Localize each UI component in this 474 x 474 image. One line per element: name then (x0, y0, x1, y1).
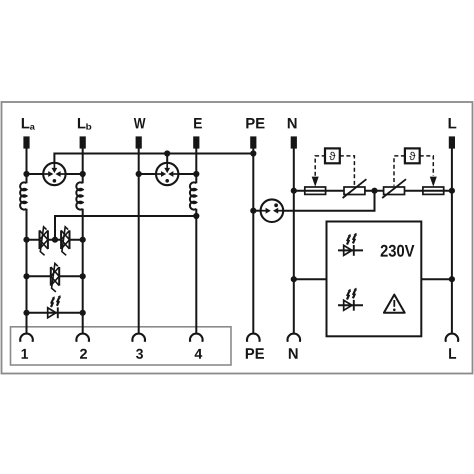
node Lb/F1 (80, 171, 86, 177)
terminal PE top (250, 136, 256, 148)
wire L vertical (451, 148, 453, 334)
thermal monitor B1 (theta box) (325, 148, 340, 163)
wire TVS V3 row (27, 275, 83, 277)
inductor L1 on La (20, 182, 26, 209)
label L top (449, 118, 457, 128)
wire rail B: TVS midpoint to E line (55, 216, 196, 240)
socket contact terminal PE bottom (247, 334, 260, 342)
terminal block X1 outline (terminals 1-4) (11, 327, 232, 365)
inductor L2 on Lb (76, 182, 82, 209)
pin label 2 (80, 349, 87, 359)
value label 230V (381, 245, 415, 257)
pin label 1 (22, 349, 28, 359)
node La/V3 (23, 273, 29, 279)
socket contact terminal 3 (132, 334, 145, 342)
node Lb/D1 (80, 310, 86, 316)
wire N-L protection row (294, 190, 452, 192)
node F2 stem/rail A (164, 150, 170, 156)
dashed linkage B2 to RV2 and F5 arrow (394, 156, 433, 186)
node L/U1 (449, 276, 455, 282)
terminal N top (291, 136, 297, 148)
node E/F2 (193, 171, 199, 177)
terminal Lb (80, 136, 86, 148)
pin label L bottom (449, 348, 456, 358)
gas discharge tube F3 (PE to varistor midpoint) (261, 199, 284, 222)
wire E vertical (195, 148, 197, 334)
node L/row (449, 188, 455, 194)
node V1-V2 midpoint (52, 237, 58, 243)
pin label PE bottom (246, 348, 264, 358)
wire F1 right lead (66, 173, 83, 175)
disconnect arrow F5 (430, 177, 437, 187)
label PE top (246, 118, 264, 128)
fuse F5 with thermal disconnect (L side) (423, 187, 444, 194)
inductor L3 on E (190, 182, 196, 209)
wire U1 left lead from N (294, 278, 327, 280)
socket contact terminal N bottom (287, 334, 300, 342)
terminal L top (449, 136, 455, 148)
socket contact terminal L bottom (446, 334, 459, 342)
gas discharge tube F1 (La-Lb) (43, 163, 65, 185)
dashed linkage B1 to F4 arrow and RV1 (315, 156, 354, 186)
node Lb/V3 (80, 273, 86, 279)
status module U1 (230V box) (327, 222, 422, 337)
node N/row (291, 188, 297, 194)
LED D1 (La-Lb status indicator) (48, 295, 61, 318)
disconnect arrow F4 (312, 177, 319, 187)
wire N vertical (293, 148, 295, 334)
terminal E (193, 136, 199, 148)
pin label N bottom (289, 348, 298, 358)
node W/F2 (136, 171, 142, 177)
node La/F1 (23, 171, 29, 177)
node PE/rail A (250, 150, 256, 156)
wire F2 left lead (139, 173, 156, 175)
wire W vertical (138, 148, 140, 334)
label N top (288, 118, 297, 128)
fuse F4 with thermal disconnect (N side) (305, 187, 326, 194)
node RV1-RV2 midpoint (371, 188, 377, 194)
node Lb/V2 (80, 237, 86, 243)
thermal monitor B2 (theta box) (405, 148, 420, 163)
wire U1 right lead to L (421, 278, 452, 280)
node E/rail B (193, 213, 199, 219)
terminal La (23, 136, 29, 148)
warning triangle symbol (384, 295, 405, 313)
socket contact terminal 2 (76, 334, 89, 342)
label E (194, 118, 202, 128)
wire F3 right lead to varistor midpoint (283, 191, 374, 211)
terminal W (136, 136, 142, 148)
wire La vertical (26, 148, 28, 334)
socket contact terminal 4 (190, 334, 203, 342)
node La/V1 (23, 237, 29, 243)
wire rail A: F1/F2 third electrodes to PE (54, 154, 253, 163)
gas discharge tube F2 (W-E) (156, 163, 178, 185)
label La (22, 118, 35, 130)
pin label 4 (195, 349, 203, 359)
label W (134, 118, 146, 128)
suppressor diode V1 (La side) (40, 227, 48, 256)
wire F1 left lead (27, 173, 44, 175)
node PE/F3 (250, 208, 256, 214)
suppressor diode V2 (Lb side) (61, 227, 69, 256)
socket contact terminal 1 (20, 334, 33, 342)
node N/U1 (291, 276, 297, 282)
wire TVS pair row segments (27, 239, 83, 241)
varistor RV2 (382, 179, 406, 198)
pin label 3 (136, 349, 143, 359)
wire PE vertical (252, 148, 254, 334)
label Lb (78, 118, 91, 130)
suppressor diode V3 (La-Lb) (51, 263, 59, 292)
wire LED D1 row (27, 312, 83, 314)
LED D3 (in U1, bottom) (338, 288, 363, 311)
wire F2 right lead (178, 173, 196, 175)
wire Lb vertical (82, 148, 84, 334)
wire F3 left lead from PE (253, 210, 260, 212)
node La/D1 (23, 310, 29, 316)
wire stem F2 to rail A (166, 154, 168, 163)
LED D2 (in U1, top) (338, 233, 363, 256)
varistor RV1 (343, 179, 367, 198)
